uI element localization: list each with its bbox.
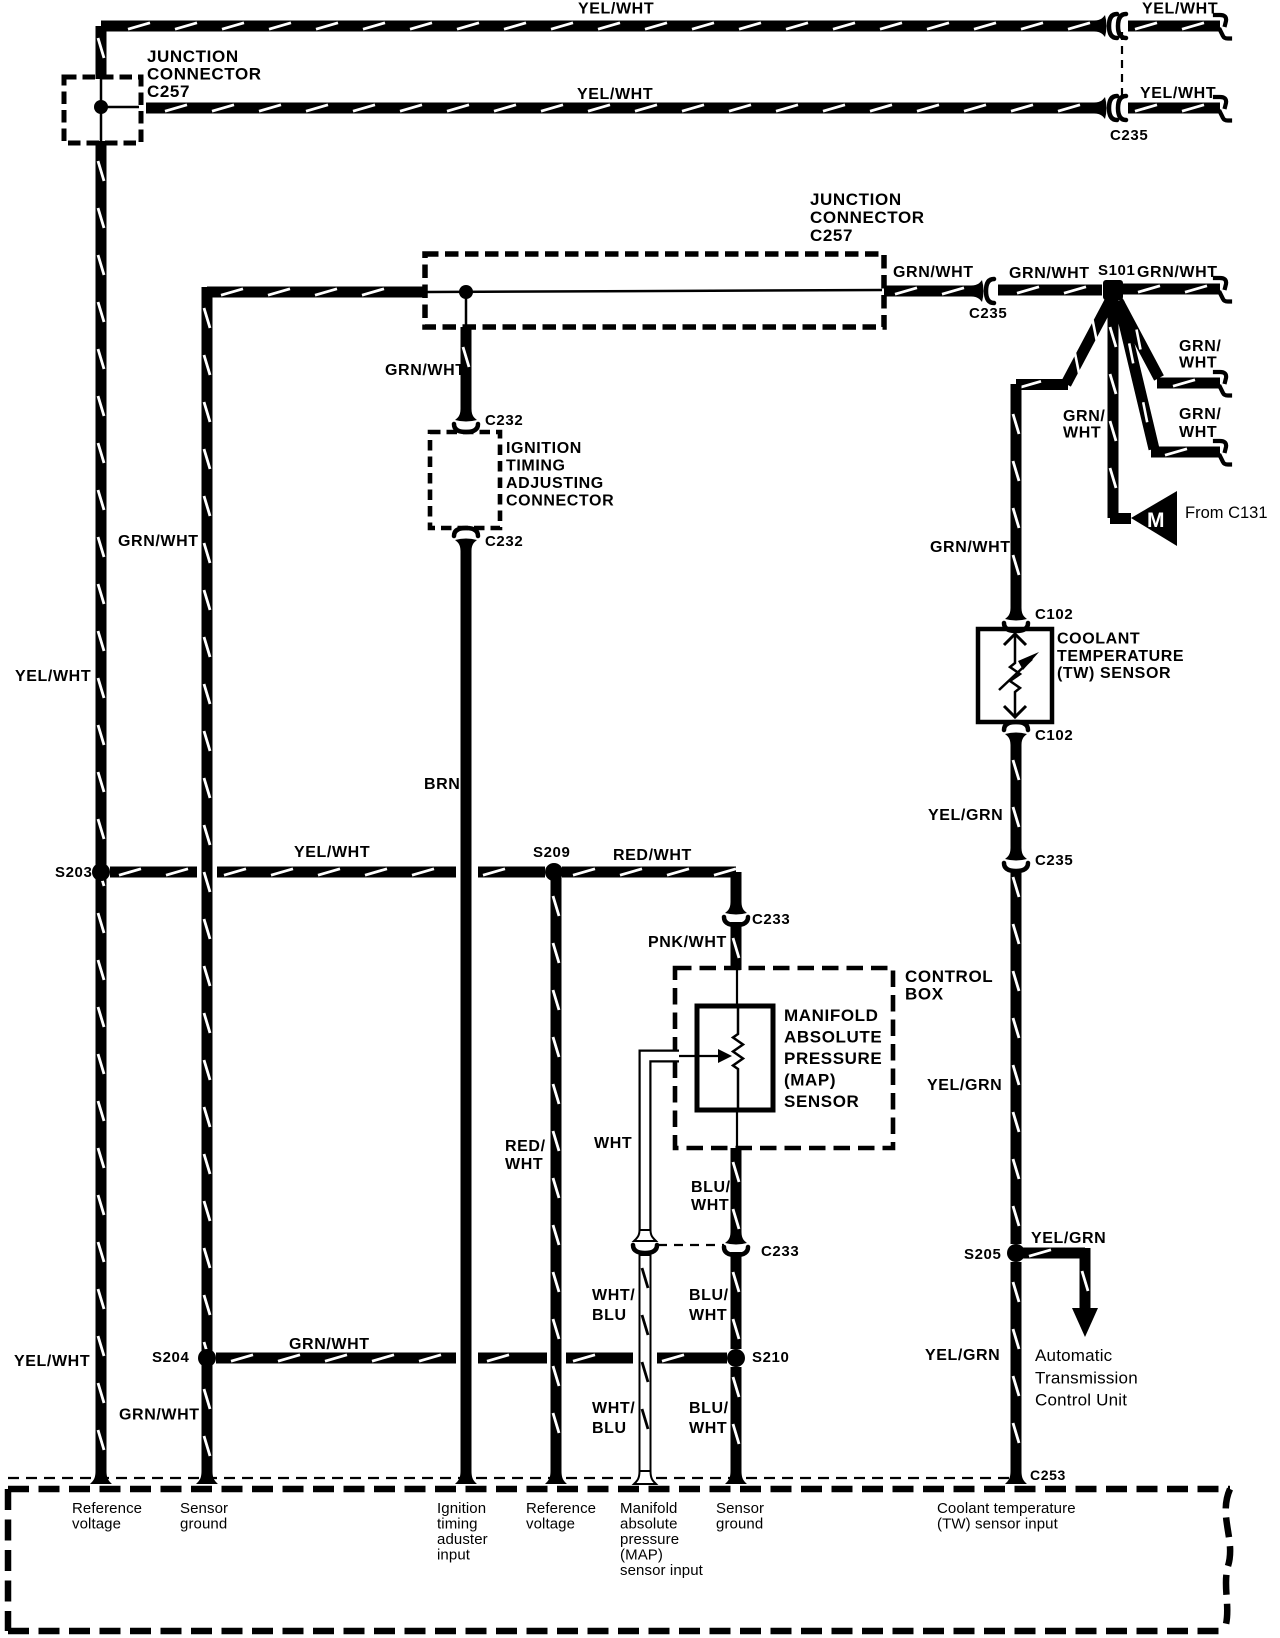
svg-text:C232: C232 bbox=[485, 412, 523, 429]
svg-text:C257: C257 bbox=[147, 82, 190, 101]
svg-text:C235: C235 bbox=[969, 305, 1007, 322]
svg-text:GRN/WHT: GRN/WHT bbox=[893, 264, 974, 281]
svg-text:TIMING: TIMING bbox=[506, 458, 566, 475]
svg-text:TEMPERATURE: TEMPERATURE bbox=[1057, 648, 1184, 665]
connector C102 top bbox=[1004, 608, 1028, 631]
connector C233 upper bbox=[724, 902, 748, 925]
label C253 bbox=[1030, 1467, 1066, 1483]
wire YEL/GRN S205 branch bbox=[1022, 1248, 1088, 1310]
junction connector C257 box bbox=[64, 77, 141, 143]
svg-text:Manifold: Manifold bbox=[620, 1500, 678, 1517]
label S101 bbox=[1098, 262, 1135, 279]
svg-text:(MAP): (MAP) bbox=[784, 1071, 836, 1090]
connector C235 on GRN/WHT bbox=[971, 279, 994, 303]
wire YEL/WHT left vertical bbox=[98, 141, 104, 1473]
svg-text:BLU: BLU bbox=[592, 1307, 627, 1324]
connector C235 dashed link bbox=[1121, 32, 1123, 100]
wire GRN/WHT S101 branch right 2 bbox=[1119, 302, 1220, 455]
label RED/WHT column bbox=[505, 1138, 546, 1173]
label S205 bbox=[964, 1246, 1001, 1263]
svg-text:S204: S204 bbox=[152, 1349, 189, 1366]
junction connector C257 box 2 bbox=[425, 254, 884, 327]
label YEL/GRN upper bbox=[928, 807, 1003, 824]
svg-text:WHT: WHT bbox=[1063, 425, 1101, 442]
node S205 bbox=[1007, 1244, 1025, 1262]
svg-text:GRN/WHT: GRN/WHT bbox=[930, 539, 1011, 556]
label YEL/WHT left bottom bbox=[14, 1353, 90, 1370]
label C233 lower bbox=[761, 1243, 799, 1260]
svg-text:COOLANT: COOLANT bbox=[1057, 631, 1140, 648]
label GRN/WHT right of S101 bbox=[1137, 264, 1218, 281]
svg-text:timing: timing bbox=[437, 1516, 478, 1533]
label ignition timing adjusting connector bbox=[506, 440, 614, 510]
wire GRN/WHT vertical x207 bbox=[204, 292, 210, 1473]
svg-text:YEL/GRN: YEL/GRN bbox=[1031, 1230, 1106, 1247]
svg-text:ABSOLUTE: ABSOLUTE bbox=[784, 1028, 882, 1047]
svg-text:S205: S205 bbox=[964, 1246, 1001, 1263]
wire YEL/WHT S203 to S209 bbox=[110, 869, 545, 875]
label C102 bottom bbox=[1035, 727, 1073, 744]
connector C235 on second YEL/WHT wire bbox=[1094, 96, 1126, 120]
svg-text:GRN/WHT: GRN/WHT bbox=[1137, 264, 1218, 281]
svg-text:C253: C253 bbox=[1030, 1467, 1066, 1483]
svg-text:GRN/WHT: GRN/WHT bbox=[118, 533, 199, 550]
motor M from C131 bbox=[1131, 491, 1177, 546]
svg-text:YEL/GRN: YEL/GRN bbox=[928, 807, 1003, 824]
svg-text:C102: C102 bbox=[1035, 727, 1073, 744]
label YEL/WHT wire2 right bbox=[1140, 85, 1216, 102]
label C235 top bbox=[1110, 127, 1148, 144]
label S210 bbox=[752, 1349, 789, 1366]
node S204 bbox=[198, 1349, 216, 1367]
svg-text:GRN/WHT: GRN/WHT bbox=[385, 362, 466, 379]
svg-text:C235: C235 bbox=[1035, 852, 1073, 869]
label coolant temperature sensor bbox=[1057, 631, 1184, 683]
svg-text:GRN/: GRN/ bbox=[1063, 408, 1105, 425]
svg-text:BLU/: BLU/ bbox=[689, 1400, 729, 1417]
connector C233 on WHT wire bbox=[633, 1230, 657, 1253]
wire PNK/WHT C233 to control box bbox=[733, 922, 739, 970]
svg-text:YEL/GRN: YEL/GRN bbox=[927, 1077, 1002, 1094]
svg-text:voltage: voltage bbox=[72, 1516, 121, 1533]
connector C233 dashed link bbox=[658, 1244, 724, 1246]
svg-text:BRN: BRN bbox=[424, 776, 460, 793]
svg-text:S203: S203 bbox=[55, 864, 92, 881]
connector C102 bottom bbox=[1004, 722, 1028, 745]
svg-text:S209: S209 bbox=[533, 844, 570, 861]
wire ECU connector line C253 bbox=[8, 1477, 1016, 1479]
label YEL/WHT wire2 center bbox=[577, 86, 653, 103]
wire GRN/WHT horizontal to junction box bbox=[207, 287, 425, 297]
wire GRN/WHT C235 to S101 bbox=[998, 287, 1102, 293]
svg-text:SENSOR: SENSOR bbox=[784, 1092, 859, 1111]
label C235 on GRN/WHT bbox=[969, 305, 1007, 322]
terminal flare YEL/GRN at ECU C253 bbox=[1005, 1471, 1027, 1484]
svg-text:Sensor: Sensor bbox=[180, 1500, 228, 1517]
svg-text:Reference: Reference bbox=[526, 1500, 596, 1517]
svg-text:C257: C257 bbox=[810, 226, 853, 245]
svg-text:YEL/WHT: YEL/WHT bbox=[578, 1, 654, 18]
connector C235 on top YEL/WHT wire bbox=[1094, 14, 1126, 38]
ignition timing adjusting connector box bbox=[430, 432, 500, 528]
wire BLU/WHT control box to C233 bbox=[733, 1148, 739, 1234]
curl end GRN/WHT right of S101 bbox=[1215, 278, 1230, 302]
svg-text:MANIFOLD: MANIFOLD bbox=[784, 1006, 879, 1025]
curl end second right bbox=[1215, 97, 1230, 121]
label automatic transmission control unit bbox=[1035, 1346, 1138, 1410]
wire YEL/WHT second bbox=[146, 105, 1099, 111]
label GRN/WHT branch right 1 bbox=[1179, 338, 1221, 372]
terminal flare GRN/WHT x207 at ECU bbox=[196, 1471, 218, 1484]
wire GRN/WHT down to C102 bbox=[1013, 384, 1019, 608]
label YEL/WHT S203 row bbox=[294, 844, 370, 861]
label sensor ground 2 bbox=[716, 1500, 764, 1533]
wire GRN/WHT S101 branch to M bbox=[1110, 300, 1131, 519]
label RED/WHT S209 row bbox=[613, 847, 692, 864]
svg-text:BLU: BLU bbox=[592, 1420, 627, 1437]
svg-text:GRN/WHT: GRN/WHT bbox=[1009, 265, 1090, 282]
curl end branch right 1 bbox=[1215, 372, 1230, 396]
svg-text:(MAP): (MAP) bbox=[620, 1547, 663, 1564]
svg-text:Reference: Reference bbox=[72, 1500, 142, 1517]
wire YEL/WHT second right stub bbox=[1128, 105, 1220, 111]
svg-text:RED/: RED/ bbox=[505, 1138, 546, 1155]
curl end top right bbox=[1215, 15, 1230, 39]
svg-text:CONNECTOR: CONNECTOR bbox=[147, 65, 262, 84]
label coolant temperature sensor input bbox=[937, 1500, 1076, 1533]
label YEL/GRN mid bbox=[927, 1077, 1002, 1094]
wire BRN vertical bbox=[461, 549, 472, 1473]
node S101 bbox=[1103, 280, 1123, 300]
label sensor ground 1 bbox=[180, 1500, 228, 1533]
svg-text:GRN/: GRN/ bbox=[1179, 406, 1221, 423]
node S210 bbox=[727, 1349, 745, 1367]
label control box bbox=[905, 967, 993, 1004]
svg-text:RED/WHT: RED/WHT bbox=[613, 847, 692, 864]
svg-text:Transmission: Transmission bbox=[1035, 1368, 1138, 1387]
svg-text:GRN/WHT: GRN/WHT bbox=[289, 1336, 370, 1353]
wire YEL/GRN S205 to ECU bbox=[1013, 1262, 1019, 1473]
MAP sensor wiper arrow bbox=[677, 1049, 732, 1063]
label BLU/WHT above S210 row bbox=[689, 1287, 729, 1324]
label ignition timing aduster input bbox=[437, 1500, 488, 1564]
svg-text:YEL/WHT: YEL/WHT bbox=[14, 1353, 90, 1370]
label C232 top bbox=[485, 412, 523, 429]
label YEL/WHT top right bbox=[1142, 1, 1218, 18]
svg-text:ADJUSTING: ADJUSTING bbox=[506, 475, 604, 492]
control box bbox=[675, 968, 893, 1148]
label YEL/WHT top center bbox=[578, 1, 654, 18]
node junction dot C257 top-left bbox=[94, 100, 108, 114]
svg-text:YEL/GRN: YEL/GRN bbox=[925, 1347, 1000, 1364]
svg-text:WHT: WHT bbox=[689, 1420, 727, 1437]
wire YEL/WHT top right stub bbox=[1128, 23, 1220, 29]
svg-text:aduster: aduster bbox=[437, 1531, 488, 1548]
label S204 bbox=[152, 1349, 189, 1366]
label GRN/WHT after box2 bbox=[893, 264, 974, 281]
svg-text:C235: C235 bbox=[1110, 127, 1148, 144]
curl end branch right 2 bbox=[1215, 441, 1230, 465]
wire GRN/WHT S204 to S210 bbox=[216, 1355, 727, 1361]
node junction dot C257 box2 bbox=[459, 285, 473, 299]
svg-text:sensor input: sensor input bbox=[620, 1562, 704, 1579]
MAP sensor resistor bbox=[733, 1006, 743, 1110]
connector C235 on YEL/GRN bbox=[1004, 848, 1028, 871]
label reference voltage 2 bbox=[526, 1500, 596, 1533]
svg-text:Automatic: Automatic bbox=[1035, 1346, 1113, 1365]
wire YEL/WHT top bbox=[101, 23, 1099, 29]
wire BLU/WHT S210 to ECU bbox=[733, 1367, 739, 1473]
svg-text:WHT: WHT bbox=[1179, 355, 1217, 372]
wire GRN/WHT right of S101 bbox=[1123, 286, 1220, 292]
label S209 bbox=[533, 844, 570, 861]
svg-text:WHT/: WHT/ bbox=[592, 1400, 635, 1417]
svg-text:YEL/WHT: YEL/WHT bbox=[15, 668, 91, 685]
svg-text:GRN/: GRN/ bbox=[1179, 338, 1221, 355]
node S203 bbox=[92, 863, 110, 881]
label PNK/WHT bbox=[648, 934, 727, 951]
wire WHT/BLU below C233 bbox=[642, 1254, 648, 1473]
wire GRN/WHT box2 to C235 bbox=[884, 288, 976, 294]
arrow to automatic transmission control unit bbox=[1072, 1308, 1098, 1337]
wire GRN/WHT box2 to C232 bbox=[463, 327, 469, 409]
svg-text:ground: ground bbox=[716, 1516, 763, 1533]
label YEL/WHT left mid bbox=[15, 668, 91, 685]
label YEL/GRN branch bbox=[1031, 1230, 1106, 1247]
svg-text:S210: S210 bbox=[752, 1349, 789, 1366]
terminal flare RED/WHT at ECU bbox=[545, 1471, 567, 1484]
coolant sensor element bbox=[999, 634, 1039, 717]
terminal flare WHT/BLU at ECU bbox=[634, 1471, 656, 1484]
wire RED/WHT S209 to corner bbox=[562, 869, 736, 903]
MAP sensor box bbox=[697, 1006, 773, 1110]
svg-text:WHT: WHT bbox=[505, 1156, 543, 1173]
label BLU/WHT below S210 row bbox=[689, 1400, 729, 1437]
automatic transmission control unit box (ECU) bbox=[8, 1489, 1230, 1631]
terminal flare BRN at ECU bbox=[455, 1471, 477, 1484]
svg-text:Sensor: Sensor bbox=[716, 1500, 764, 1517]
coolant temperature sensor box bbox=[978, 629, 1052, 722]
svg-text:YEL/WHT: YEL/WHT bbox=[577, 86, 653, 103]
terminal flare BLU/WHT at ECU bbox=[725, 1471, 747, 1484]
terminal flare left wire at ECU bbox=[90, 1471, 112, 1484]
label BRN bbox=[424, 776, 460, 793]
label WHT/BLU above S210 row bbox=[592, 1287, 635, 1324]
svg-text:pressure: pressure bbox=[620, 1531, 679, 1548]
wire YEL/GRN C102 to C235 bbox=[1013, 742, 1019, 848]
label C233 upper bbox=[752, 911, 790, 928]
label GRN/WHT S204 row bbox=[289, 1336, 370, 1353]
wire YEL/WHT left vertical upper bbox=[98, 26, 104, 79]
svg-text:C233: C233 bbox=[761, 1243, 799, 1260]
label GRN/WHT before S101 bbox=[1009, 265, 1090, 282]
label WHT/BLU below S210 row bbox=[592, 1400, 635, 1437]
wire BLU/WHT C233 to S210 bbox=[733, 1252, 739, 1349]
label From C131 bbox=[1185, 504, 1268, 522]
connector C233 lower bbox=[724, 1232, 748, 1255]
label C232 bottom bbox=[485, 533, 523, 550]
label GRN/WHT above C102 bbox=[930, 539, 1011, 556]
wire GRN/WHT S101 branch right 1 bbox=[1118, 301, 1220, 386]
svg-text:JUNCTION: JUNCTION bbox=[147, 47, 239, 66]
label BLU/WHT column upper bbox=[691, 1179, 731, 1214]
wire thin MAP box to control box edge bbox=[736, 1110, 738, 1148]
svg-text:M: M bbox=[1147, 509, 1165, 532]
label C235 on YEL/GRN bbox=[1035, 852, 1073, 869]
label reference voltage 1 bbox=[72, 1500, 142, 1533]
svg-text:CONNECTOR: CONNECTOR bbox=[810, 208, 925, 227]
svg-text:CONTROL: CONTROL bbox=[905, 967, 993, 986]
svg-text:GRN/WHT: GRN/WHT bbox=[119, 1407, 200, 1424]
label junction connector C257 box2 bbox=[810, 190, 925, 245]
svg-text:Coolant temperature: Coolant temperature bbox=[937, 1500, 1076, 1517]
svg-text:ground: ground bbox=[180, 1516, 227, 1533]
svg-text:YEL/WHT: YEL/WHT bbox=[294, 844, 370, 861]
svg-text:WHT: WHT bbox=[689, 1307, 727, 1324]
svg-text:Ignition: Ignition bbox=[437, 1500, 486, 1517]
label S203 bbox=[55, 864, 92, 881]
label MAP sensor input bbox=[620, 1500, 704, 1579]
svg-text:PNK/WHT: PNK/WHT bbox=[648, 934, 727, 951]
wire GRN/WHT S101 branch to coolant bbox=[1016, 301, 1110, 388]
connector C232 bottom bbox=[454, 528, 478, 551]
label GRN/WHT branch right 2 bbox=[1179, 406, 1221, 441]
connector C232 top bbox=[454, 409, 478, 432]
svg-text:S101: S101 bbox=[1098, 262, 1135, 279]
label GRN/WHT left bottom bbox=[119, 1407, 200, 1424]
node S209 bbox=[545, 863, 563, 881]
svg-text:YEL/WHT: YEL/WHT bbox=[1142, 1, 1218, 18]
wire YEL/GRN C235 to S205 bbox=[1013, 869, 1019, 1244]
svg-text:C102: C102 bbox=[1035, 606, 1073, 623]
wire WHT outline bbox=[645, 1056, 679, 1232]
svg-text:(TW) sensor input: (TW) sensor input bbox=[937, 1516, 1059, 1533]
svg-text:voltage: voltage bbox=[526, 1516, 575, 1533]
label GRN/WHT left mid bbox=[118, 533, 199, 550]
wire RED/WHT vertical bbox=[553, 872, 559, 1473]
svg-text:WHT/: WHT/ bbox=[592, 1287, 635, 1304]
wire thin inside control box bbox=[736, 968, 738, 1006]
svg-text:IGNITION: IGNITION bbox=[506, 440, 582, 457]
label GRN/WHT above C232 bbox=[385, 362, 466, 379]
svg-text:Control Unit: Control Unit bbox=[1035, 1391, 1127, 1410]
svg-text:C232: C232 bbox=[485, 533, 523, 550]
svg-text:BLU/: BLU/ bbox=[691, 1179, 731, 1196]
label WHT column bbox=[594, 1135, 632, 1152]
label MAP sensor bbox=[784, 1006, 882, 1111]
label YEL/GRN lower bbox=[925, 1347, 1000, 1364]
svg-text:C233: C233 bbox=[752, 911, 790, 928]
label junction connector C257 top-left bbox=[147, 47, 262, 101]
svg-text:CONNECTOR: CONNECTOR bbox=[506, 493, 614, 510]
svg-text:absolute: absolute bbox=[620, 1516, 678, 1533]
svg-text:WHT: WHT bbox=[691, 1197, 729, 1214]
svg-text:WHT: WHT bbox=[1179, 424, 1217, 441]
label C102 top bbox=[1035, 606, 1073, 623]
svg-text:PRESSURE: PRESSURE bbox=[784, 1049, 882, 1068]
svg-text:JUNCTION: JUNCTION bbox=[810, 190, 902, 209]
svg-text:From C131: From C131 bbox=[1185, 504, 1268, 522]
svg-text:YEL/WHT: YEL/WHT bbox=[1140, 85, 1216, 102]
svg-text:(TW) SENSOR: (TW) SENSOR bbox=[1057, 665, 1171, 682]
svg-text:BOX: BOX bbox=[905, 985, 944, 1004]
svg-text:WHT: WHT bbox=[594, 1135, 632, 1152]
label GRN/WHT M branch bbox=[1063, 408, 1105, 442]
svg-text:input: input bbox=[437, 1547, 471, 1564]
svg-text:BLU/: BLU/ bbox=[689, 1287, 729, 1304]
